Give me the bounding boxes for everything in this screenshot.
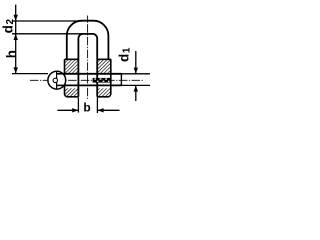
svg-text:b: b [83, 100, 90, 114]
svg-text:h: h [4, 50, 19, 58]
